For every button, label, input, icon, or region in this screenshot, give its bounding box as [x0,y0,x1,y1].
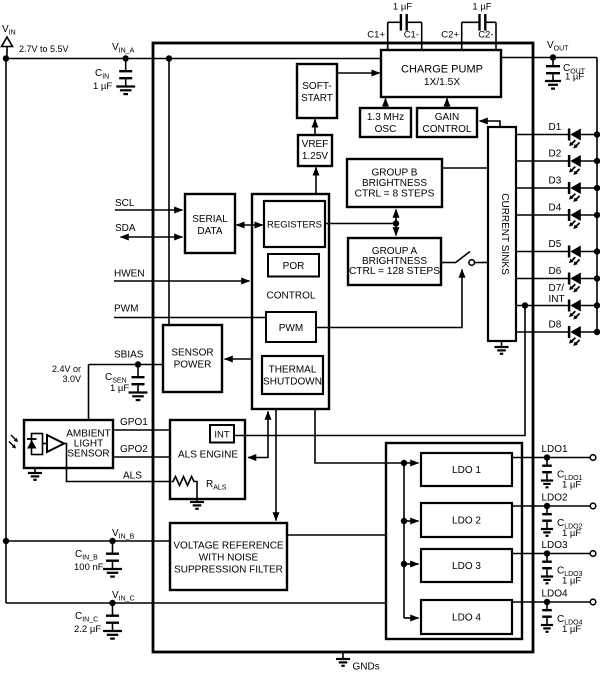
wire VOUT [501,54,597,60]
svg-text:2.4V or: 2.4V or [52,364,81,374]
svg-text:SOFT-: SOFT- [302,81,331,92]
capacitor C1 flying 1uF [388,2,422,31]
svg-text:SENSOR: SENSOR [67,449,109,460]
svg-text:LDO 1: LDO 1 [452,465,481,476]
svg-text:REGISTERS: REGISTERS [267,220,322,231]
node LDO3 terminal [590,551,596,557]
pin SDA [115,223,183,237]
svg-text:SBIAS: SBIAS [114,350,144,361]
capacitor CLDO4 1uF [541,602,583,635]
wire OSC to CHARGE PUMP [385,98,387,108]
svg-text:VREF: VREF [302,139,329,150]
block SENSOR POWER [163,325,222,392]
svg-text:1 µF: 1 µF [565,72,584,83]
pin D4 wire [516,214,570,216]
capacitor COUT 1uF [545,58,586,89]
wire LDO select rail [401,463,407,618]
ground GNDs at IC bottom [336,652,380,673]
svg-text:GNDs: GNDs [353,662,380,673]
wire INT to D7 [234,302,528,435]
wire LED anode rail [596,58,598,333]
svg-text:PWM: PWM [114,304,138,315]
svg-text:1 µF: 1 µF [562,624,581,635]
block LDO 3 [421,549,512,582]
LED D8 [569,326,581,346]
svg-text:2.7V to 5.5V: 2.7V to 5.5V [19,44,69,54]
svg-text:CONTROL: CONTROL [267,291,316,302]
svg-text:SUPPRESSION FILTER: SUPPRESSION FILTER [174,565,283,576]
capacitor CIN_C 2.2uF [74,603,122,639]
wire D6 anode [581,275,600,281]
pin D5 wire [516,251,570,253]
wire CONTROL to VOLTAGE REFERENCE [275,409,277,521]
resistor RALS [172,477,227,509]
wire CONTROL to LDO select [315,409,419,466]
wire to LDO 4 [404,617,419,619]
pin HWEN [114,269,250,282]
pin PWM [114,304,266,318]
svg-text:CHARGE PUMP: CHARGE PUMP [401,64,483,76]
pin SCL [115,198,183,210]
wire CONTROL to VREF [315,167,317,194]
pin VIN_C [6,590,386,606]
svg-text:INT: INT [214,430,230,441]
svg-text:DATA: DATA [197,226,223,237]
svg-text:D6: D6 [549,266,562,277]
capacitor CSEN 1uF [105,365,147,401]
wire D5 anode [581,248,600,254]
svg-text:1.3 MHz: 1.3 MHz [367,112,404,123]
svg-text:LDO4: LDO4 [542,589,569,600]
wire VIN left rail [5,59,7,604]
svg-text:2.2 µF: 2.2 µF [74,624,101,635]
svg-text:PWM: PWM [279,323,303,334]
block AMBIENT LIGHT SENSOR [24,420,113,468]
svg-text:1 µF: 1 µF [110,383,129,394]
wire to LDO 3 [404,563,419,565]
light arrows into sensor [9,435,18,449]
pin D7 wire [516,305,570,307]
svg-text:CURRENT SINKS: CURRENT SINKS [499,193,510,275]
pin LDO4 output [512,589,590,606]
node LDO1 terminal [590,455,596,461]
wire to LDO 2 [404,520,419,522]
pin C1- [404,22,422,50]
svg-text:WITH NOISE: WITH NOISE [199,553,259,564]
pin D6 wire [516,278,570,280]
pin C1+ [367,22,387,50]
svg-text:1.25V: 1.25V [302,151,328,162]
block CONTROL [252,194,329,409]
IC outline [153,43,533,652]
pin VIN_B [3,528,170,544]
wire D7 anode [581,302,600,308]
wire GROUP A to switch [441,262,455,264]
block LDO group [386,443,522,639]
pin ALS [64,444,173,482]
svg-text:1 µF: 1 µF [562,576,581,587]
wire REGISTERS to brightness controls [325,220,399,226]
svg-text:BRIGHTNESS: BRIGHTNESS [362,178,427,189]
svg-text:C2-: C2- [478,30,493,41]
svg-text:SDA: SDA [115,223,136,234]
svg-text:C2+: C2+ [441,30,459,41]
svg-text:THERMAL: THERMAL [269,365,317,376]
svg-text:LDO 3: LDO 3 [452,561,481,572]
wire D1 anode [581,131,600,137]
wire CURRENT SINKS to GAIN CONTROL [480,121,501,127]
block VOLTAGE REFERENCE WITH NOISE SUPPRESSION FILTER [170,523,287,590]
pin LDO2 output [512,493,590,510]
svg-text:POWER: POWER [174,360,212,371]
svg-text:1 µF: 1 µF [93,81,112,92]
svg-text:ALS: ALS [123,471,142,482]
ground below sensor [28,468,42,480]
wire D2 anode [581,158,600,164]
svg-text:LDO2: LDO2 [542,493,569,504]
block THERMAL SHUTDOWN [262,356,323,394]
wire PWM to switch [316,270,462,328]
svg-text:D4: D4 [549,203,562,214]
wire VIN horizontal to VIN_A [3,55,381,61]
svg-text:SCL: SCL [115,198,135,209]
node LDO4 terminal [590,599,596,605]
wire SOFT-START to CHARGE PUMP [337,72,380,74]
svg-text:GROUP B: GROUP B [372,168,418,179]
block INT [210,425,234,443]
capacitor CIN_B 100nF [74,541,122,577]
LED D5 [569,246,581,266]
pin C2- [478,22,496,50]
svg-text:D7/: D7/ [549,283,565,294]
wire D8 anode [581,329,600,335]
wire CONTROL / ALS ENGINE arrows [248,412,268,458]
svg-text:GPO1: GPO1 [120,417,148,428]
block SERIAL DATA [185,194,235,253]
svg-text:CTRL = 128 STEPS: CTRL = 128 STEPS [349,266,440,277]
pin SBIAS [89,350,164,368]
photodiode in sensor [27,434,43,455]
wire SERIAL DATA / REGISTERS double arrow [236,224,262,226]
capacitor C2 flying 1uF [462,2,496,31]
LED D2 [569,155,581,175]
svg-text:D2: D2 [549,149,562,160]
block SOFT-START [297,64,337,118]
svg-text:SENSOR: SENSOR [171,348,213,359]
svg-text:D1: D1 [549,122,562,133]
block LDO 4 [421,600,512,634]
block REGISTERS [264,201,325,247]
wire D3 anode [581,185,600,191]
capacitor CLDO3 1uF [541,554,583,587]
op-amp in sensor [43,435,65,452]
node VIN input terminal [2,24,69,59]
pin C2+ [441,22,461,50]
LED D3 [569,182,581,202]
svg-text:C1+: C1+ [367,30,385,41]
wire GAIN CONTROL to CHARGE PUMP [446,98,448,108]
pin D1 wire [516,134,570,136]
switch brightness select [455,252,488,266]
block POR [268,254,319,277]
LED D1 [569,129,581,149]
LED D7 [569,300,581,320]
block GAIN CONTROL [417,108,477,137]
pin D7/INT label [549,283,565,305]
block GROUP B BRIGHTNESS [347,159,442,207]
svg-text:HWEN: HWEN [114,269,145,280]
block ALS ENGINE [170,420,245,499]
svg-text:1 µF: 1 µF [472,2,491,13]
svg-text:LDO3: LDO3 [542,540,569,551]
block LDO 1 [421,453,512,486]
svg-text:1 µF: 1 µF [562,480,581,491]
svg-text:3.0V: 3.0V [62,374,81,384]
svg-text:INT: INT [549,294,565,305]
pin GPO1 [113,417,170,430]
svg-text:LDO1: LDO1 [542,444,569,455]
svg-text:ALS ENGINE: ALS ENGINE [178,450,238,461]
pin LDO3 output [512,540,590,557]
block CURRENT SINKS [488,127,516,341]
svg-text:SERIAL: SERIAL [192,214,228,225]
block GROUP A BRIGHTNESS [348,238,441,285]
svg-text:GPO2: GPO2 [120,444,148,455]
svg-text:1 µF: 1 µF [393,2,412,13]
node 2.4V or 3.0V source [52,364,89,420]
svg-text:1X/1.5X: 1X/1.5X [424,77,460,88]
capacitor CIN 1uF [93,59,135,95]
svg-text:VOLTAGE REFERENCE: VOLTAGE REFERENCE [173,541,284,552]
wire VOLTAGE REFERENCE to LDO block [287,534,386,536]
capacitor CLDO2 1uF [541,506,583,539]
svg-text:100 nF: 100 nF [74,562,104,573]
svg-text:D8: D8 [549,320,562,331]
svg-text:1 µF: 1 µF [562,528,581,539]
svg-text:LDO 2: LDO 2 [452,516,481,527]
LED D4 [569,209,581,229]
pin GPO2 [113,444,170,457]
svg-text:CTRL = 8 STEPS: CTRL = 8 STEPS [355,189,435,200]
svg-text:START: START [301,93,333,104]
block PWM [266,312,316,342]
svg-text:CONTROL: CONTROL [423,124,472,135]
capacitor CLDO1 1uF [541,458,583,491]
svg-text:LDO 4: LDO 4 [452,613,481,624]
node LDO2 terminal [590,503,596,509]
pin D3 wire [516,187,570,189]
block CHARGE PUMP 1X/1.5X [381,50,501,97]
svg-text:SHUTDOWN: SHUTDOWN [263,377,322,388]
svg-text:OSC: OSC [375,124,397,135]
wire CONTROL to SENSOR POWER [225,358,253,360]
block 1.3 MHz OSC [360,108,411,137]
svg-text:D3: D3 [549,176,562,187]
svg-text:C1-: C1- [404,30,419,41]
svg-text:D5: D5 [549,239,562,250]
wire GROUP B to CURRENT SINKS [442,167,488,169]
pin LDO1 output [512,444,590,461]
wire D4 anode [581,212,600,218]
svg-text:POR: POR [283,261,305,272]
LED D6 [569,273,581,293]
block LDO 2 [421,503,512,537]
block VREF 1.25V [298,135,332,166]
wire VIN_A internal rail to SENSOR POWER [168,59,170,326]
pin D8 wire [516,331,570,333]
pin D2 wire [516,160,570,162]
wire VREF to SOFT-START [314,119,316,135]
ground below CURRENT SINKS [494,341,508,354]
svg-text:GAIN: GAIN [435,112,459,123]
wire GROUP B / GROUP A double arrow [395,210,397,236]
